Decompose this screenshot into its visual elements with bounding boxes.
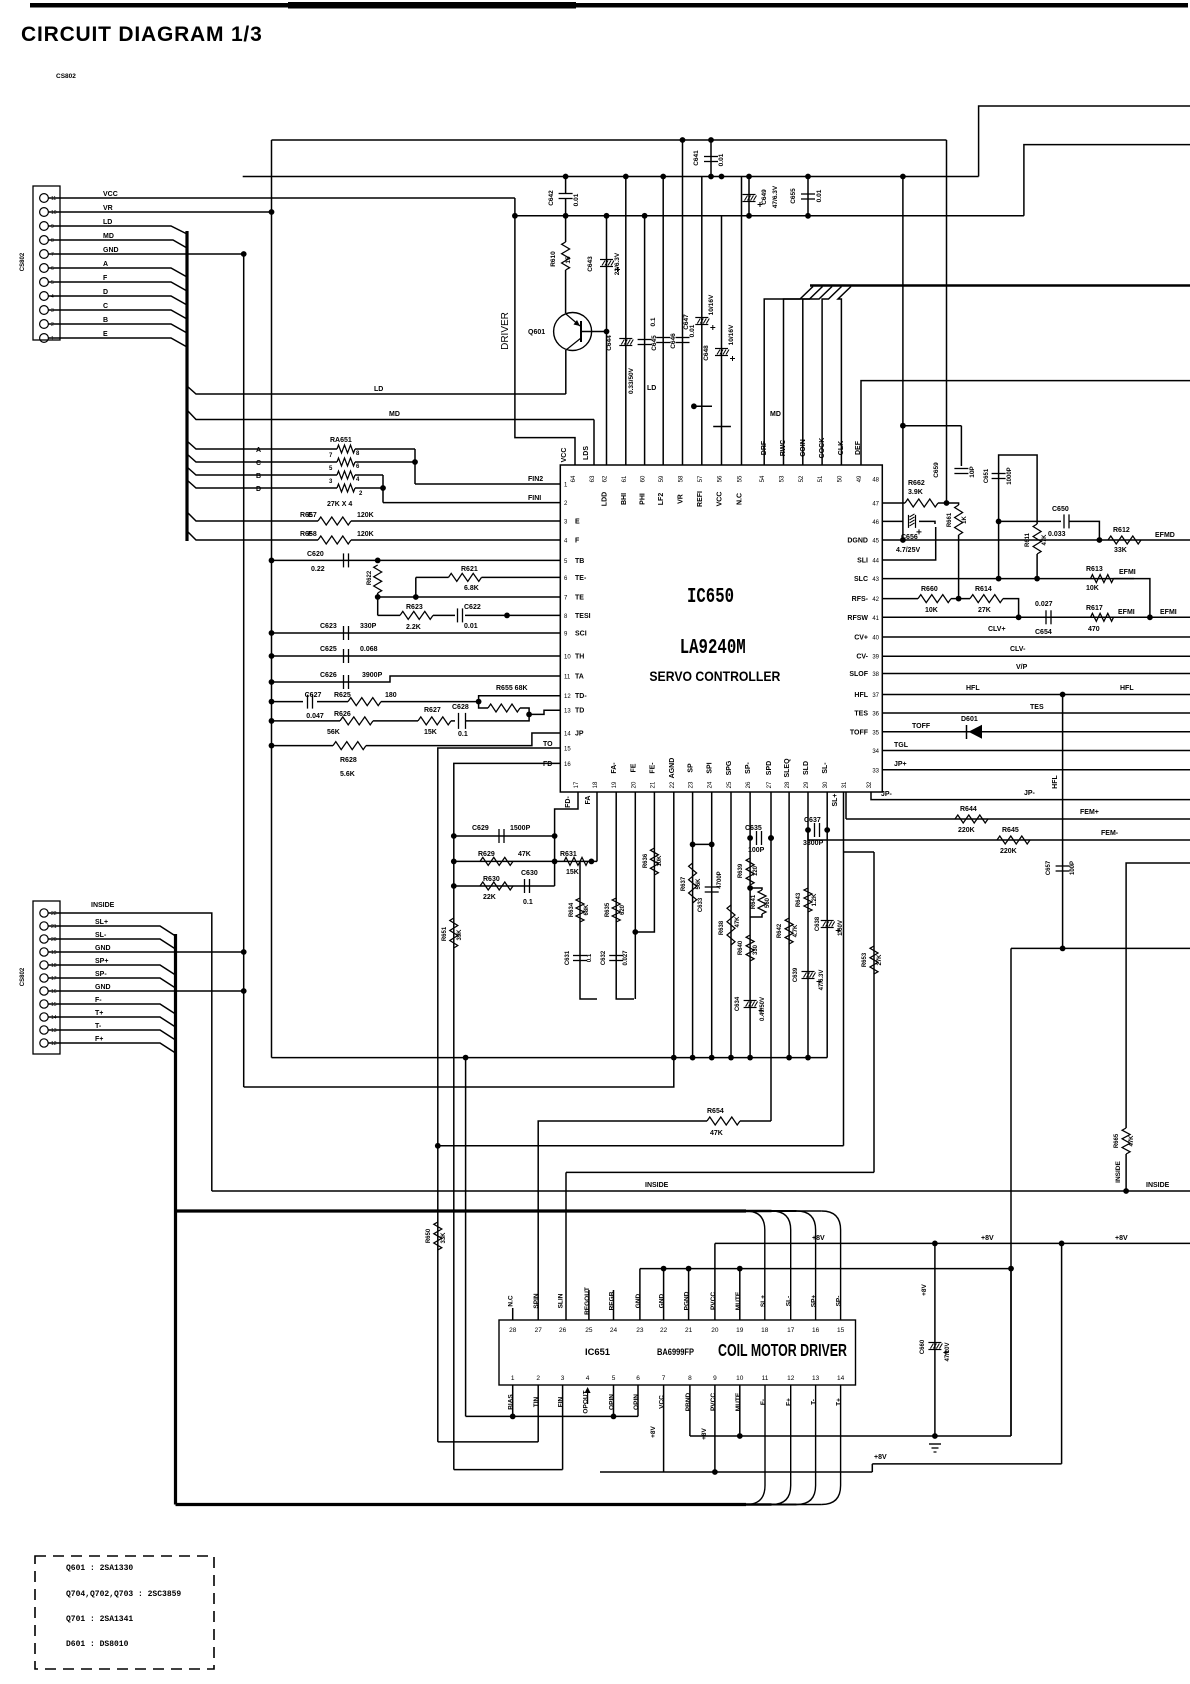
svg-text:47K: 47K bbox=[1129, 1135, 1135, 1147]
wire R653 column bbox=[873, 852, 875, 1172]
svg-text:20: 20 bbox=[711, 1327, 719, 1334]
svg-text:SCI: SCI bbox=[575, 631, 587, 638]
node R631 right bbox=[589, 859, 595, 865]
svg-text:22/6.3V: 22/6.3V bbox=[614, 252, 621, 275]
svg-text:560: 560 bbox=[765, 897, 771, 908]
svg-text:PHI: PHI bbox=[640, 493, 647, 505]
wire data bus y285 bbox=[810, 284, 1190, 287]
wire cable bus (lower left) bbox=[174, 934, 177, 1505]
svg-text:10K: 10K bbox=[657, 855, 663, 867]
wire conn2 signal into cable bbox=[48, 978, 176, 988]
svg-text:SLI: SLI bbox=[857, 558, 868, 565]
connector pin 17 (SP-) bbox=[40, 974, 48, 982]
svg-text:DRIVER: DRIVER bbox=[500, 312, 511, 350]
svg-text:SLIN: SLIN bbox=[558, 1293, 565, 1308]
wire pin 17 FD- down bbox=[555, 792, 578, 886]
svg-text:LDS: LDS bbox=[583, 446, 590, 460]
wire TGL row bbox=[882, 750, 1190, 752]
svg-text:CS802: CS802 bbox=[56, 73, 76, 80]
svg-text:EFMI: EFMI bbox=[1119, 569, 1136, 576]
svg-text:R639: R639 bbox=[738, 863, 744, 878]
connector CS802 (bottom) bbox=[33, 901, 60, 1054]
wire HFL row bbox=[882, 694, 1190, 696]
svg-text:19: 19 bbox=[736, 1327, 744, 1334]
svg-text:Q601 : 2SA1330: Q601 : 2SA1330 bbox=[66, 1564, 133, 1573]
wire pin 28 SLEQ column bbox=[788, 792, 790, 1058]
svg-text:56K: 56K bbox=[327, 729, 340, 736]
svg-text:19: 19 bbox=[612, 781, 618, 788]
svg-text:17: 17 bbox=[51, 976, 57, 982]
svg-text:TH: TH bbox=[575, 654, 584, 661]
connector pin 13 (T-) bbox=[40, 1026, 48, 1034]
wire MD down to pin 63 bbox=[593, 420, 595, 466]
svg-text:330: 330 bbox=[753, 944, 759, 955]
svg-text:3: 3 bbox=[51, 308, 54, 314]
wire conn2 signal into cable bbox=[48, 1030, 176, 1040]
svg-text:COIN: COIN bbox=[800, 439, 807, 457]
svg-text:19: 19 bbox=[51, 950, 57, 956]
svg-text:MD: MD bbox=[103, 233, 114, 240]
node HFL end bbox=[1060, 946, 1066, 952]
wire INSIDE from connector bbox=[48, 913, 212, 1191]
svg-text:D: D bbox=[103, 289, 108, 296]
svg-text:470: 470 bbox=[1088, 626, 1100, 633]
svg-text:3.9K: 3.9K bbox=[908, 489, 923, 496]
svg-text:JP-: JP- bbox=[881, 791, 893, 798]
svg-text:12: 12 bbox=[787, 1375, 795, 1382]
wire pin 8 PBND down bbox=[689, 1385, 691, 1436]
resistor R634 bbox=[576, 898, 584, 922]
svg-text:MD: MD bbox=[770, 411, 781, 418]
capacitor C647 bbox=[695, 317, 708, 319]
svg-text:FA: FA bbox=[585, 796, 592, 805]
resistor RA651 c bbox=[337, 471, 355, 479]
svg-text:1: 1 bbox=[511, 1375, 515, 1382]
wire pin 23 SP column bbox=[692, 792, 694, 1058]
wire cable bend 3 (top) bbox=[822, 1211, 841, 1320]
wire TD row bbox=[272, 720, 341, 722]
svg-text:TES: TES bbox=[854, 711, 868, 718]
svg-text:REFI: REFI bbox=[697, 491, 704, 507]
transistor Q601 bbox=[554, 313, 592, 351]
wire D into bus bbox=[48, 296, 187, 305]
svg-text:COIL MOTOR DRIVER: COIL MOTOR DRIVER bbox=[718, 1340, 847, 1360]
svg-text:R662: R662 bbox=[908, 480, 925, 487]
svg-text:21: 21 bbox=[685, 1327, 693, 1334]
svg-text:56: 56 bbox=[718, 475, 724, 482]
svg-text:R641: R641 bbox=[751, 894, 757, 909]
svg-text:13: 13 bbox=[51, 1028, 57, 1034]
svg-text:4: 4 bbox=[51, 294, 54, 300]
svg-text:28: 28 bbox=[785, 781, 791, 788]
wire pin 3 FIN down bbox=[562, 1385, 564, 1470]
svg-text:55: 55 bbox=[738, 475, 744, 482]
connector pin 3 (C) bbox=[40, 306, 49, 315]
svg-text:220K: 220K bbox=[958, 827, 975, 834]
resistor R637 bbox=[689, 863, 697, 903]
connector pin 14 (T+) bbox=[40, 1013, 48, 1021]
svg-text:+8V: +8V bbox=[650, 1425, 657, 1437]
svg-text:120: 120 bbox=[753, 865, 759, 876]
resistor R610 bbox=[562, 242, 570, 270]
wire C out of bus bbox=[187, 454, 337, 462]
svg-text:0.027: 0.027 bbox=[1035, 601, 1053, 608]
connector pin 11 (VCC) bbox=[40, 194, 49, 203]
svg-text:0.1: 0.1 bbox=[523, 899, 533, 906]
svg-text:JP: JP bbox=[575, 731, 584, 738]
svg-text:9: 9 bbox=[51, 224, 54, 230]
svg-text:14: 14 bbox=[51, 1015, 57, 1021]
resistor R660 bbox=[918, 595, 951, 603]
wire F to pin 4 bbox=[351, 539, 560, 541]
wire y948 row bbox=[1011, 947, 1190, 949]
resistor R621 bbox=[449, 573, 482, 581]
node FIN1 junction bbox=[380, 485, 386, 491]
svg-text:R626: R626 bbox=[334, 711, 351, 718]
node y140 a bbox=[680, 137, 686, 143]
svg-text:C647: C647 bbox=[683, 314, 690, 330]
svg-text:34: 34 bbox=[872, 749, 879, 755]
wire conn2 signal into cable bbox=[48, 1004, 176, 1014]
svg-text:C632: C632 bbox=[601, 950, 607, 965]
wire pin 20 PVCC up bbox=[714, 1243, 716, 1320]
svg-text:SLC: SLC bbox=[854, 576, 868, 583]
svg-text:17: 17 bbox=[787, 1327, 795, 1334]
svg-text:31: 31 bbox=[842, 781, 848, 788]
diode D601 bbox=[969, 725, 983, 739]
resistor R653 bbox=[870, 946, 878, 974]
svg-text:MUTE: MUTE bbox=[735, 1392, 742, 1411]
wire GND 2 bbox=[48, 990, 244, 992]
top rule bar bbox=[30, 3, 1188, 8]
svg-text:16: 16 bbox=[812, 1327, 820, 1334]
wire C659 top lead bbox=[960, 426, 962, 466]
connector pin 1 (E) bbox=[40, 334, 49, 343]
svg-text:VCC: VCC bbox=[717, 492, 724, 507]
wire C642 top bbox=[565, 177, 567, 194]
node R655 right bbox=[526, 712, 532, 718]
resistor R623 bbox=[400, 611, 433, 619]
svg-text:GND: GND bbox=[659, 1293, 666, 1308]
svg-text:5.6K: 5.6K bbox=[340, 771, 355, 778]
capacitor C659 bbox=[954, 468, 968, 470]
svg-text:C627: C627 bbox=[305, 692, 322, 699]
connector pin 22 (INSIDE) bbox=[40, 909, 48, 917]
node TB row bbox=[269, 558, 275, 564]
svg-text:51: 51 bbox=[818, 475, 824, 482]
capacitor C644 bbox=[619, 338, 632, 340]
svg-text:C639: C639 bbox=[793, 967, 799, 982]
svg-text:PBND: PBND bbox=[685, 1392, 692, 1411]
capacitor C626 bbox=[343, 675, 345, 689]
wire pin 9 PVCC down bbox=[714, 1385, 716, 1472]
svg-text:LD: LD bbox=[374, 386, 383, 393]
node GND 22 bbox=[661, 1266, 667, 1272]
node CLV+ bbox=[1016, 614, 1022, 620]
svg-text:0.027: 0.027 bbox=[623, 950, 629, 966]
svg-text:SPG: SPG bbox=[726, 760, 733, 775]
wire pin 31 down bbox=[845, 792, 847, 819]
svg-text:10K: 10K bbox=[1086, 585, 1099, 592]
svg-text:INSIDE: INSIDE bbox=[645, 1182, 669, 1189]
wire pin 47 bbox=[882, 502, 905, 504]
svg-text:6: 6 bbox=[636, 1375, 640, 1382]
svg-text:IC650: IC650 bbox=[687, 586, 734, 609]
svg-text:R636: R636 bbox=[643, 853, 649, 868]
node jog a bbox=[691, 403, 697, 409]
svg-text:F-: F- bbox=[760, 1399, 767, 1405]
svg-text:R645: R645 bbox=[1002, 827, 1019, 834]
capacitor C633 bbox=[705, 886, 719, 888]
connector pin 5 (F) bbox=[40, 278, 49, 287]
wire CV+ row bbox=[882, 636, 1190, 638]
node PGND 21 bbox=[686, 1266, 692, 1272]
svg-text:TB: TB bbox=[575, 558, 584, 565]
svg-text:COCK: COCK bbox=[819, 438, 826, 459]
svg-text:FD: FD bbox=[543, 761, 552, 768]
wire pin 30 SL- column bbox=[826, 792, 828, 1058]
svg-text:R642: R642 bbox=[777, 923, 783, 938]
capacitor C657 bbox=[1056, 865, 1070, 867]
node FE junction bbox=[632, 929, 638, 935]
connector pin 18 (SP+) bbox=[40, 961, 48, 969]
svg-text:2: 2 bbox=[536, 1375, 540, 1382]
wire INSIDE row bbox=[212, 1190, 1190, 1192]
wire R628 row bbox=[272, 745, 334, 747]
svg-text:60: 60 bbox=[641, 475, 647, 482]
svg-text:VCC: VCC bbox=[103, 191, 118, 198]
resistor R617 bbox=[1091, 613, 1114, 621]
capacitor C649 bbox=[743, 194, 756, 196]
svg-text:JP-: JP- bbox=[1024, 790, 1036, 797]
svg-text:SLD: SLD bbox=[803, 761, 810, 775]
svg-text:GND: GND bbox=[635, 1293, 642, 1308]
svg-text:0.47/50V: 0.47/50V bbox=[760, 997, 766, 1021]
svg-text:C660: C660 bbox=[920, 1339, 926, 1354]
svg-text:R634: R634 bbox=[569, 902, 575, 917]
svg-text:LA9240M: LA9240M bbox=[680, 637, 746, 660]
svg-text:0.01: 0.01 bbox=[464, 623, 478, 630]
resistor R662 bbox=[905, 499, 938, 507]
svg-text:C628: C628 bbox=[452, 704, 469, 711]
svg-text:CS802: CS802 bbox=[20, 252, 26, 271]
svg-text:R611: R611 bbox=[1025, 532, 1031, 547]
wire RA651c out bbox=[355, 474, 383, 476]
wire C659 branch bbox=[903, 425, 962, 427]
capacitor C655 bbox=[801, 193, 815, 195]
resistor R630 bbox=[480, 882, 513, 890]
node PVCC 9 bbox=[712, 1469, 718, 1475]
wire jog a bbox=[694, 405, 712, 407]
svg-text:E: E bbox=[575, 519, 580, 526]
wire TOFF row bbox=[882, 731, 1190, 733]
wire pin 24 stub bbox=[613, 1290, 615, 1320]
svg-text:SL-: SL- bbox=[786, 1296, 793, 1306]
wire FIN1 merge bbox=[382, 475, 384, 503]
svg-text:C657: C657 bbox=[1046, 860, 1052, 875]
node SP bbox=[690, 842, 696, 848]
wire jog b bbox=[713, 426, 731, 428]
svg-text:IC651: IC651 bbox=[585, 1347, 610, 1357]
node SP bus bbox=[690, 1055, 696, 1061]
svg-text:C637: C637 bbox=[804, 817, 821, 824]
svg-text:23: 23 bbox=[689, 781, 695, 788]
wire to R661 bbox=[947, 503, 959, 505]
wire LD out of bus to Q601 bbox=[187, 386, 566, 394]
wire B into bus bbox=[48, 324, 187, 333]
svg-text:49: 49 bbox=[857, 475, 863, 482]
wire Q601 base to pin62 column bbox=[581, 331, 607, 333]
svg-text:24: 24 bbox=[610, 1327, 618, 1334]
connector CS802 (top) bbox=[33, 186, 60, 340]
svg-text:0.22: 0.22 bbox=[311, 566, 325, 573]
svg-text:R631: R631 bbox=[560, 851, 577, 858]
node BIAS bus bbox=[463, 1055, 469, 1061]
svg-text:A: A bbox=[103, 261, 108, 268]
wire C629 row bbox=[454, 835, 555, 837]
svg-text:56K: 56K bbox=[696, 878, 702, 890]
svg-text:C623: C623 bbox=[320, 623, 337, 630]
wire C650 row bbox=[999, 520, 1061, 522]
svg-text:R643: R643 bbox=[796, 892, 802, 907]
svg-text:OPIN: OPIN bbox=[609, 1394, 616, 1410]
svg-text:44: 44 bbox=[872, 559, 879, 565]
resistor R627 bbox=[418, 717, 451, 725]
svg-text:DGND: DGND bbox=[847, 538, 868, 545]
wire F out of bus bbox=[187, 531, 318, 540]
svg-text:+8V: +8V bbox=[921, 1283, 928, 1295]
svg-text:+8V: +8V bbox=[874, 1454, 887, 1461]
node SLEQ bus bbox=[786, 1055, 792, 1061]
svg-text:TOFF: TOFF bbox=[912, 723, 931, 730]
wire pin 44 SLI bbox=[882, 527, 935, 560]
wire R650 to TIN bbox=[438, 1441, 538, 1443]
svg-text:R622: R622 bbox=[367, 570, 373, 585]
svg-text:0.01: 0.01 bbox=[689, 324, 696, 337]
svg-text:10: 10 bbox=[736, 1375, 744, 1382]
svg-text:27K X 4: 27K X 4 bbox=[327, 501, 352, 508]
wire C656 out bbox=[919, 521, 935, 524]
svg-text:33K: 33K bbox=[441, 1232, 447, 1244]
wire FD to FIN bbox=[454, 1469, 563, 1471]
svg-text:3: 3 bbox=[561, 1375, 565, 1382]
wire C into bus bbox=[48, 310, 187, 319]
svg-text:10P: 10P bbox=[969, 466, 976, 478]
wire R610 top bbox=[565, 216, 567, 242]
svg-text:SP-: SP- bbox=[836, 1296, 843, 1307]
svg-text:45: 45 bbox=[872, 539, 879, 545]
node R611 bottom bbox=[1034, 576, 1040, 582]
svg-text:FD-: FD- bbox=[565, 796, 572, 808]
capacitor C648 bbox=[715, 348, 728, 350]
svg-text:32: 32 bbox=[867, 781, 873, 788]
wire GND row y1436 bbox=[690, 1435, 1011, 1437]
node C629 left bbox=[451, 833, 457, 839]
resistor R654 bbox=[707, 1117, 740, 1125]
svg-text:OPIN: OPIN bbox=[633, 1394, 640, 1410]
svg-text:3300P: 3300P bbox=[803, 840, 824, 847]
resistor RA651 d bbox=[337, 484, 355, 492]
svg-text:120K: 120K bbox=[357, 531, 374, 538]
node C650 right bbox=[1097, 537, 1103, 543]
wire pin 21 FE- column bbox=[635, 792, 654, 932]
svg-text:TE-: TE- bbox=[575, 575, 587, 582]
wire RA651a to FIN2 bbox=[355, 448, 415, 450]
svg-text:35: 35 bbox=[872, 730, 879, 736]
svg-text:C643: C643 bbox=[587, 256, 594, 272]
svg-text:GND: GND bbox=[95, 984, 111, 991]
svg-text:RA651: RA651 bbox=[330, 437, 352, 444]
svg-text:CLV-: CLV- bbox=[1010, 646, 1026, 653]
svg-text:15K: 15K bbox=[424, 729, 437, 736]
wire pin 22 GND up bbox=[663, 1269, 665, 1320]
wire INSIDE from right bbox=[1126, 863, 1190, 1128]
svg-text:DRF: DRF bbox=[761, 440, 768, 455]
svg-text:R658: R658 bbox=[300, 531, 317, 538]
wire CV- row bbox=[882, 655, 1190, 657]
svg-text:4.7/25V: 4.7/25V bbox=[896, 547, 920, 554]
node R628 row bbox=[269, 743, 275, 749]
node R629 left bbox=[451, 859, 457, 865]
capacitor C641 bbox=[704, 156, 718, 158]
node C660 bottom bbox=[932, 1433, 938, 1439]
wire cable top run bbox=[176, 1209, 747, 1212]
svg-text:68K: 68K bbox=[584, 904, 590, 916]
node y176 junction bbox=[623, 174, 629, 180]
wire pin 55 column bbox=[741, 177, 743, 466]
connector pin 12 (F+) bbox=[40, 1039, 48, 1047]
svg-text:PVCC: PVCC bbox=[710, 1292, 717, 1310]
svg-text:C654: C654 bbox=[1035, 629, 1052, 636]
wire C642 bottom bbox=[565, 199, 567, 216]
svg-text:B: B bbox=[103, 317, 108, 324]
svg-text:C650: C650 bbox=[1052, 506, 1069, 513]
wire left vertical rail bbox=[271, 140, 273, 1058]
svg-text:V/P: V/P bbox=[1016, 664, 1028, 671]
svg-text:18: 18 bbox=[51, 963, 57, 969]
svg-text:8: 8 bbox=[688, 1375, 692, 1382]
svg-text:PGND: PGND bbox=[684, 1291, 691, 1310]
wire SLC row bbox=[882, 578, 1134, 580]
connector pin 7 (GND) bbox=[40, 250, 49, 259]
node C637 right bbox=[824, 827, 830, 833]
svg-text:B: B bbox=[256, 473, 261, 480]
svg-text:FINI: FINI bbox=[528, 495, 541, 502]
wire FIN2 to pin 1 bbox=[415, 483, 560, 485]
svg-text:C644: C644 bbox=[606, 335, 613, 351]
node FIN2 junction bbox=[412, 459, 418, 465]
wire GND from connector bbox=[48, 253, 244, 255]
svg-text:R655 68K: R655 68K bbox=[496, 685, 528, 692]
node R661 join bbox=[956, 596, 962, 602]
svg-text:40: 40 bbox=[872, 636, 879, 642]
wire bus signal 2 bbox=[803, 287, 832, 466]
wire pin 27 SPD column bbox=[770, 792, 772, 1121]
svg-text:C: C bbox=[256, 460, 261, 467]
svg-text:C625: C625 bbox=[320, 646, 337, 653]
svg-text:C651: C651 bbox=[984, 468, 990, 483]
svg-text:C633: C633 bbox=[698, 897, 704, 912]
svg-text:HFL: HFL bbox=[1120, 685, 1134, 692]
svg-text:R660: R660 bbox=[921, 586, 938, 593]
wire C651/R611 top loop bbox=[999, 455, 1038, 579]
svg-text:T-: T- bbox=[811, 1399, 818, 1405]
svg-text:5: 5 bbox=[612, 1375, 616, 1382]
svg-text:VR: VR bbox=[103, 205, 113, 212]
svg-text:CS802: CS802 bbox=[20, 967, 26, 986]
svg-text:R651: R651 bbox=[442, 926, 448, 941]
wire pin 57 column bbox=[701, 177, 703, 466]
